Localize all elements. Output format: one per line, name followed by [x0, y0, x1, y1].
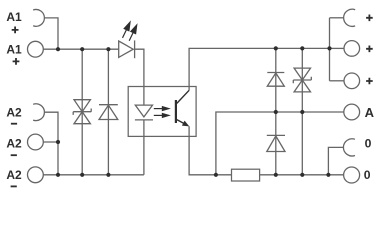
LED emission arrows	[123, 22, 137, 41]
suppressor diode D1 (bidirectional, left)	[73, 100, 91, 124]
label + under A1 top	[12, 27, 19, 34]
diode D2 (left column)	[99, 105, 118, 120]
label minus under A2 first	[11, 123, 17, 125]
optocoupler emission arrows	[154, 106, 171, 118]
wire 0 bus after resistor	[260, 174, 344, 176]
node A2 circle dot	[56, 140, 60, 144]
wire diode branch right 1	[275, 48, 277, 174]
wire diode branch right 2	[301, 48, 303, 174]
wire opto LED cathode to A2 bus	[143, 120, 145, 175]
terminal + screw circle (mid)	[344, 41, 360, 57]
node A2 bus dot 2	[80, 173, 84, 177]
wire A2 bottom bus	[43, 174, 144, 176]
terminal A2 screw circle (middle)	[28, 134, 44, 150]
svg-text:A2: A2	[6, 136, 22, 150]
svg-text:A1: A1	[6, 10, 22, 24]
terminal A2 screw circle (bottom)	[28, 167, 44, 183]
wire A1 bus	[43, 48, 118, 50]
node A2 bus dot 1	[56, 173, 60, 177]
label + right mid	[366, 46, 373, 53]
label + right bottom	[366, 78, 373, 85]
wire output A riser and line	[216, 112, 344, 175]
terminal A1 bridge arc (top left)	[33, 10, 44, 27]
wire diode branch left	[107, 49, 109, 175]
optocoupler box U1	[128, 87, 196, 137]
svg-text:0: 0	[364, 168, 371, 182]
wire 0 arc lead	[328, 147, 343, 174]
node top bus dot 2	[300, 46, 304, 50]
svg-text:0: 0	[365, 137, 372, 151]
label minus under A2 second	[11, 154, 17, 156]
terminal A2 bridge arc	[33, 104, 44, 121]
node A line dot 1	[274, 110, 278, 114]
wire emitter riser and bottom bus	[189, 126, 231, 175]
terminal 0 bridge arc	[343, 139, 355, 156]
wire A1 arc lead	[44, 18, 58, 49]
wire LED cathode to optocoupler	[135, 49, 144, 105]
label minus under A2 third	[11, 185, 17, 187]
label + under A1 second	[13, 58, 20, 65]
node A2 bus dot 3	[106, 173, 110, 177]
wire right terminal riser (+)	[329, 18, 331, 81]
terminal A screw circle	[344, 104, 360, 120]
wire A2 circle lead	[43, 142, 58, 175]
svg-text:A: A	[365, 105, 375, 120]
terminal + screw circle (bottom)	[344, 73, 360, 89]
wire + circle lead (mid)	[330, 47, 345, 49]
LED indicator diode	[119, 40, 135, 58]
diode D3 (upper right)	[267, 73, 284, 87]
node top bus dot 3	[327, 46, 331, 50]
wire + arc lead	[330, 17, 344, 19]
phototransistor Q1	[176, 90, 189, 126]
resistor R1	[232, 169, 260, 181]
node A1 bus dot 1	[56, 47, 60, 51]
svg-text:A2: A2	[6, 168, 22, 182]
node emitter bus dot	[214, 173, 218, 177]
node A1 bus dot 3	[106, 47, 110, 51]
wire collector riser and output top bus	[189, 48, 329, 90]
wire A2 arc lead	[44, 112, 58, 142]
suppressor diode D4 (bidirectional, right)	[293, 68, 311, 92]
label + right top	[366, 15, 373, 22]
node 0 bus dot 1	[274, 173, 278, 177]
node A line dot 2	[300, 110, 304, 114]
terminal A1 screw circle	[28, 41, 44, 57]
node A1 bus dot 2	[80, 47, 84, 51]
node 0 bus dot 3	[326, 173, 330, 177]
optocoupler LED	[135, 105, 153, 120]
wire suppressor branch left	[81, 49, 83, 175]
svg-text:A2: A2	[6, 105, 22, 119]
terminal 0 screw circle	[344, 167, 360, 183]
diode D5 (lower right)	[267, 135, 285, 151]
node top bus dot 1	[274, 46, 278, 50]
terminal + bridge arc (top right)	[344, 9, 356, 26]
svg-text:A1: A1	[6, 43, 22, 57]
wire + circle lead (bottom)	[330, 80, 345, 82]
node 0 bus dot 2	[300, 173, 304, 177]
